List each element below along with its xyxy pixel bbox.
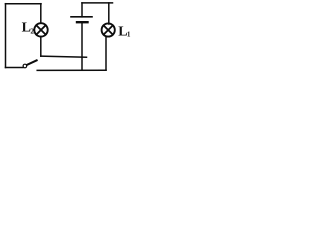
wire bottom-left segment xyxy=(6,67,24,69)
switch S1 pivot circle xyxy=(23,64,27,68)
svg-text:2: 2 xyxy=(30,27,34,35)
wire top-right segment xyxy=(82,2,113,4)
battery long plate xyxy=(71,16,92,18)
node A junction wire (mid bottom) xyxy=(41,56,87,57)
wire L1 bottom lead xyxy=(105,36,107,70)
wire L2 bottom lead xyxy=(40,37,42,57)
lamp L2 cross xyxy=(36,25,45,34)
lamp L2 circle xyxy=(34,23,47,36)
wire left border xyxy=(5,4,7,68)
wire bottom-right segment xyxy=(37,69,106,71)
wire L2 top lead xyxy=(40,4,42,24)
lamp L1 circle xyxy=(102,23,115,36)
label L2 xyxy=(22,21,35,36)
battery top lead xyxy=(81,3,83,17)
battery bottom lead xyxy=(81,22,83,70)
svg-text:1: 1 xyxy=(127,30,131,38)
wire L1 top lead xyxy=(108,3,110,24)
battery short plate xyxy=(77,21,88,23)
wire top-left segment xyxy=(6,3,42,5)
lamp L1 cross xyxy=(104,25,113,34)
switch S1 blade (open) xyxy=(27,60,37,65)
label L1 xyxy=(118,25,131,40)
